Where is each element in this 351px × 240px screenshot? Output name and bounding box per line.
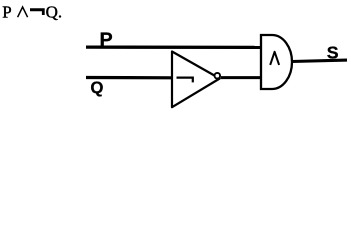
svg-text:P: P	[2, 2, 11, 21]
svg-text:S: S	[327, 42, 339, 62]
wire P input	[86, 45, 261, 49]
wire S output	[292, 60, 348, 61]
NOT operator symbol in expression	[30, 8, 45, 15]
AND symbol inside gate	[270, 52, 279, 65]
NOT symbol inside inverter	[177, 77, 194, 83]
wire Q input	[86, 76, 173, 80]
AND operator symbol in expression	[18, 7, 28, 17]
svg-text:P: P	[100, 29, 113, 51]
inverter U1 triangle	[172, 52, 220, 108]
svg-text:Q.: Q.	[46, 2, 63, 21]
inverter U1 bubble	[215, 73, 221, 79]
svg-text:Q: Q	[90, 78, 103, 97]
wire inverter output to AND gate	[221, 76, 261, 79]
AND gate U2 body	[261, 35, 292, 89]
